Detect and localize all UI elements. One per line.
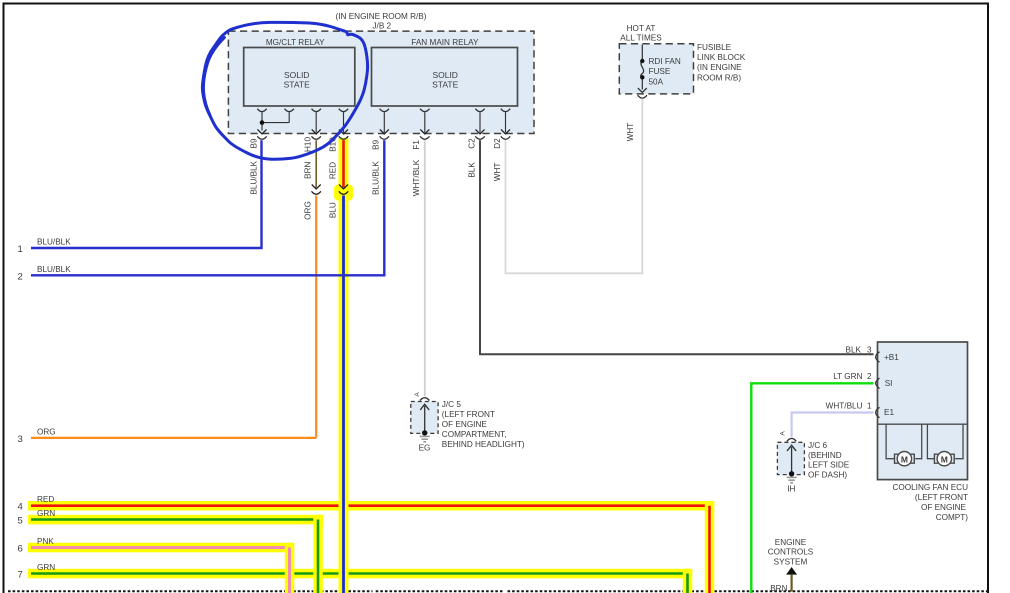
wire 7 GRN vertical drop: [686, 574, 689, 593]
svg-text:+B1: +B1: [884, 353, 899, 362]
relay FAN MAIN RELAY box: [372, 48, 518, 107]
pin arcs at relay box bottoms: [257, 109, 510, 112]
svg-text:HOT AT: HOT AT: [627, 24, 656, 33]
svg-text:J/C 5: J/C 5: [442, 400, 462, 409]
wire 6 PNK horizontal: [31, 546, 291, 549]
svg-text:E1: E1: [884, 408, 894, 417]
wire 1 BLU/BLK horizontal: [31, 140, 262, 248]
svg-text:2: 2: [18, 271, 23, 282]
ECU pin arcs: [876, 352, 880, 418]
svg-text:LINK BLOCK: LINK BLOCK: [697, 53, 746, 62]
svg-text:BLU/BLK: BLU/BLK: [37, 265, 71, 274]
rotated pin labels under J/B: [249, 137, 502, 152]
svg-text:BEHIND HEADLIGHT): BEHIND HEADLIGHT): [442, 440, 525, 449]
svg-text:MG/CLT RELAY: MG/CLT RELAY: [266, 38, 325, 47]
svg-text:PNK: PNK: [37, 537, 54, 546]
svg-text:SOLID: SOLID: [432, 70, 458, 80]
wire BLU vertical from splice to bottom: [342, 196, 345, 593]
svg-text:6: 6: [18, 544, 23, 555]
svg-text:(LEFT FRONT: (LEFT FRONT: [915, 493, 968, 502]
stub labels wires 1-7: [18, 244, 23, 581]
wire 5 GRN vertical drop: [317, 520, 320, 593]
pin stems from relay boxes down to J/B lower edge: [316, 112, 505, 132]
svg-text:J/B 2: J/B 2: [372, 21, 391, 30]
svg-text:BRN: BRN: [303, 161, 312, 178]
svg-text:GRN: GRN: [37, 563, 55, 572]
yellow highlight: wire 5 GRN horizontal: [28, 515, 323, 525]
connector arcs below J/B edge: [257, 136, 510, 139]
J/C 5 ground symbol: [420, 436, 430, 441]
svg-text:FAN MAIN RELAY: FAN MAIN RELAY: [411, 38, 479, 47]
fuse RDI FAN FUSE 50A: [638, 45, 647, 99]
ECU box COOLING FAN ECU: [878, 342, 968, 480]
svg-text:D2: D2: [493, 138, 502, 149]
svg-text:STATE: STATE: [432, 80, 458, 90]
wire BRN from H10 to splice: [315, 140, 317, 187]
svg-text:WHT: WHT: [493, 163, 502, 182]
svg-text:4: 4: [18, 502, 23, 513]
annotation circle second pass stroke on left: [204, 38, 225, 116]
wire 7 GRN horizontal: [31, 572, 689, 575]
svg-text:SOLID: SOLID: [284, 70, 310, 80]
pin B9 jumper wire with junction dot inside J/B: [262, 112, 289, 130]
svg-text:ORG: ORG: [303, 201, 312, 220]
wire 6 PNK vertical drop: [288, 548, 291, 593]
svg-text:SYSTEM: SYSTEM: [774, 558, 808, 567]
svg-text:F1: F1: [412, 140, 421, 150]
svg-text:3: 3: [867, 345, 872, 354]
J/C 6 top connector cap: [787, 438, 796, 441]
J/C 5 internal up arrow to ground dot: [424, 406, 426, 433]
svg-text:ORG: ORG: [37, 427, 56, 436]
svg-text:J/C 6: J/C 6: [808, 441, 828, 450]
wire RED from B10 to splice: [342, 140, 345, 187]
motor M1: [895, 452, 915, 466]
svg-text:5: 5: [18, 516, 23, 527]
yellow highlight: wire 5 GRN vertical: [313, 515, 323, 593]
svg-text:B9: B9: [249, 138, 258, 148]
svg-text:RED: RED: [329, 162, 338, 179]
motor M2: [934, 452, 954, 466]
junction connector J/C 5 dashed box: [411, 402, 438, 434]
wire 4 RED horizontal: [31, 504, 711, 507]
yellow highlight: blob at RED/BLU splice: [334, 185, 353, 201]
yellow highlight: wire 7 GRN horizontal: [28, 569, 692, 579]
wire ORG vertical from splice down to wire 3: [315, 196, 317, 438]
yellow highlight: wire 6 PNK horizontal: [28, 543, 294, 553]
hand-drawn blue annotation circle around MG/CLT relay: [202, 22, 367, 159]
wire BRN stem to engine controls system: [790, 575, 792, 592]
svg-text:ALL TIMES: ALL TIMES: [620, 34, 662, 43]
rotated wire colour labels: [249, 123, 635, 220]
ECU motor leads: [886, 424, 963, 459]
connector arc below J/B edge at B10 (over highlight): [339, 136, 348, 139]
svg-text:M: M: [941, 454, 948, 464]
junction connector J/C 6 dashed box: [777, 442, 804, 474]
J/C 6 ground symbol: [787, 477, 797, 482]
svg-text:COMPT): COMPT): [936, 513, 969, 522]
svg-text:BLU: BLU: [329, 202, 338, 218]
svg-text:COOLING FAN ECU: COOLING FAN ECU: [892, 483, 968, 492]
svg-text:ROOM R/B): ROOM R/B): [697, 73, 741, 82]
wire 4 RED vertical drop: [708, 506, 711, 593]
svg-text:2: 2: [867, 372, 872, 381]
fusible link block dashed box: [619, 44, 693, 94]
wire WHT from fuse down, left along y=273 from D2: [641, 99, 643, 273]
svg-text:50A: 50A: [649, 77, 664, 86]
svg-text:EG: EG: [419, 444, 431, 453]
svg-text:FUSIBLE: FUSIBLE: [697, 43, 732, 52]
svg-text:C2: C2: [467, 138, 476, 149]
wire LT GRN from SI pin left and down: [751, 383, 873, 593]
yellow highlight: wire 7 GRN vertical: [683, 569, 693, 593]
svg-text:B9: B9: [372, 139, 381, 149]
svg-text:BRN: BRN: [770, 584, 787, 593]
svg-text:RDI FAN: RDI FAN: [649, 57, 681, 66]
svg-text:OF DASH): OF DASH): [808, 471, 847, 480]
svg-text:SI: SI: [885, 379, 893, 388]
svg-text:(BEHIND: (BEHIND: [808, 451, 842, 460]
svg-text:CONTROLS: CONTROLS: [768, 548, 814, 557]
svg-text:(IN ENGINE: (IN ENGINE: [697, 63, 742, 72]
yellow highlight: wire 6 PNK vertical: [285, 543, 295, 593]
svg-text:H10: H10: [303, 137, 312, 152]
svg-text:FUSE: FUSE: [649, 67, 671, 76]
junction block J/B 2 dashed box: [228, 31, 534, 133]
svg-text:BLU/BLK: BLU/BLK: [37, 238, 71, 247]
J/C 6 internal up arrow to ground dot: [791, 447, 793, 474]
yellow highlight: vertical B10 RED/BLU wire: [339, 138, 349, 593]
wire WHT from D2 down and right to fuse drop: [506, 140, 644, 273]
splice connector on BRN/ORG wire: [312, 185, 321, 195]
yellow highlight: wire 4 RED horizontal: [28, 501, 714, 511]
svg-text:COMPARTMENT,: COMPARTMENT,: [442, 430, 507, 439]
svg-text:IH: IH: [787, 484, 795, 493]
svg-text:OF ENGINE: OF ENGINE: [921, 503, 967, 512]
wire 5 GRN horizontal: [31, 518, 319, 521]
relay MG/CLT RELAY box: [244, 48, 355, 107]
svg-text:STATE: STATE: [284, 80, 310, 90]
chevron arrows at J/B lower edge: [258, 129, 511, 134]
svg-text:BLU/BLK: BLU/BLK: [372, 161, 381, 195]
wire 2 BLU/BLK horizontal: [31, 140, 384, 275]
svg-text:(IN ENGINE ROOM R/B): (IN ENGINE ROOM R/B): [336, 12, 427, 21]
svg-text:1: 1: [867, 401, 872, 410]
svg-text:A: A: [414, 392, 421, 397]
svg-text:WHT/BLK: WHT/BLK: [412, 159, 421, 196]
J/C 5 top connector cap: [420, 398, 429, 401]
svg-text:WHT: WHT: [626, 123, 635, 142]
svg-text:LEFT SIDE: LEFT SIDE: [808, 461, 850, 470]
wire 3 ORG horizontal: [31, 437, 316, 439]
svg-text:RED: RED: [37, 495, 54, 504]
arrow to engine controls system: [786, 567, 797, 575]
svg-text:M: M: [901, 454, 908, 464]
svg-text:3: 3: [18, 434, 23, 445]
svg-text:BLK: BLK: [467, 162, 476, 178]
svg-text:BLK: BLK: [846, 345, 862, 354]
wire WHT/BLU from E1 pin left and down to J/C 6: [792, 413, 874, 438]
wire BLK from C2 down then right to ECU +B1: [480, 140, 874, 354]
svg-text:WHT/BLU: WHT/BLU: [826, 401, 863, 410]
svg-text:(LEFT FRONT: (LEFT FRONT: [442, 410, 495, 419]
svg-text:LT GRN: LT GRN: [833, 372, 862, 381]
splice connector on RED/BLU wire: [339, 185, 348, 195]
ECU internal separator: [878, 423, 968, 425]
svg-text:1: 1: [18, 244, 23, 255]
svg-text:OF ENGINE: OF ENGINE: [442, 420, 488, 429]
bottom dashed boundary lines: [8, 590, 987, 592]
yellow highlight: wire 4 RED vertical: [705, 501, 715, 593]
wire WHT/BLK from F1 down to J/C 5: [424, 140, 426, 396]
svg-text:GRN: GRN: [37, 509, 55, 518]
svg-text:ENGINE: ENGINE: [775, 538, 807, 547]
svg-text:7: 7: [18, 570, 23, 581]
svg-text:A: A: [780, 431, 787, 436]
svg-text:BLU/BLK: BLU/BLK: [249, 160, 258, 194]
